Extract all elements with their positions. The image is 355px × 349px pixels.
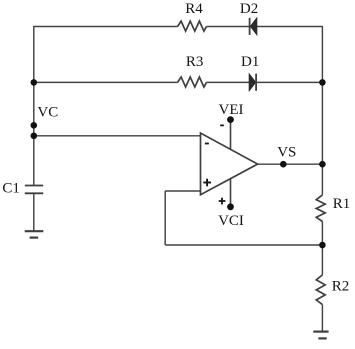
diode D1 xyxy=(249,74,256,91)
wire second row right segment xyxy=(256,81,322,83)
diode D2 xyxy=(250,18,257,35)
svg-text:VS: VS xyxy=(277,145,296,161)
power terminal VEI (negative supply) xyxy=(220,116,234,149)
power terminal VCI (positive supply) xyxy=(219,179,234,211)
svg-text:VEI: VEI xyxy=(219,102,244,118)
wire second row middle segment xyxy=(207,81,250,83)
resistor R1 xyxy=(316,195,325,222)
svg-text:C1: C1 xyxy=(2,181,20,197)
svg-text:D1: D1 xyxy=(241,54,259,70)
wire C1 bottom to ground xyxy=(33,193,35,231)
wire op-amp output (VS) xyxy=(258,163,323,165)
node right rail row-2 junction xyxy=(319,79,326,86)
node VC junction dot (row 2) xyxy=(31,79,38,86)
wire right rail upper vertical xyxy=(321,27,323,195)
wire second row left segment xyxy=(34,81,178,83)
wire feedback left vertical xyxy=(164,191,166,245)
wire top row left segment xyxy=(33,26,177,28)
svg-text:R1: R1 xyxy=(333,196,351,212)
node output/right-rail junction xyxy=(319,161,326,168)
wire R2 to ground xyxy=(321,305,323,332)
wire left rail vertical xyxy=(33,27,35,186)
resistor R4 xyxy=(178,21,207,31)
op-amp U1 xyxy=(201,133,258,195)
svg-text:D2: D2 xyxy=(240,1,258,17)
ground (below C1) xyxy=(25,231,44,237)
wire non-inverting input stub xyxy=(165,190,200,192)
ground (below R2) xyxy=(313,332,328,339)
resistor R3 xyxy=(178,77,207,87)
capacitor C1 xyxy=(25,186,43,194)
wire top row right segment xyxy=(257,26,323,28)
wire R1 to node junction xyxy=(321,222,323,246)
wire feedback bottom horizontal xyxy=(165,244,322,246)
node VC upper dot xyxy=(31,122,38,129)
resistor R2 xyxy=(316,275,325,305)
svg-text:VCI: VCI xyxy=(218,213,244,229)
node VS dot on output wire xyxy=(280,161,287,168)
svg-text:VC: VC xyxy=(37,104,58,120)
svg-text:R4: R4 xyxy=(185,1,203,17)
wire junction to R2 xyxy=(321,245,323,275)
node feedback junction dot xyxy=(319,242,326,249)
wire top row middle segment xyxy=(207,26,250,28)
svg-text:R2: R2 xyxy=(332,279,350,295)
svg-text:R3: R3 xyxy=(186,54,204,70)
node VC lower dot (inverting input wire) xyxy=(31,133,38,140)
wire inverting input (VC to op-amp) xyxy=(34,135,201,137)
